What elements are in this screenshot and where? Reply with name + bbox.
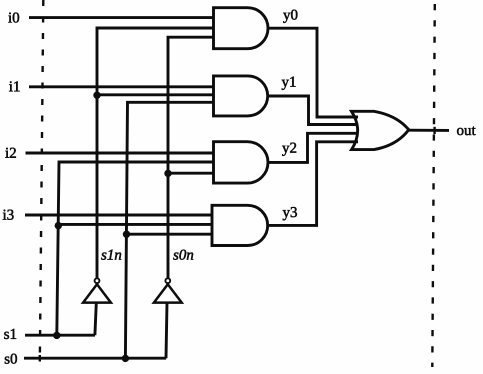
wire y2 output to OR input 3: [268, 133, 358, 162]
wire s0n branch to AND3 input 3: [168, 172, 214, 175]
or-gate U7 (out): [352, 111, 409, 149]
boundary dashed line left: [40, 0, 43, 353]
label y0: [283, 10, 297, 23]
and-gate U3 (y2): [214, 142, 268, 183]
inverter U5 (s1n): [83, 278, 111, 335]
boundary dashed line right: [432, 4, 435, 367]
wire y1 output to OR input 2: [268, 96, 358, 125]
label i1: [9, 81, 19, 91]
label s1: [4, 329, 16, 339]
junction s0 / AND4 branch: [123, 231, 130, 238]
wire y0 output to OR input 1: [268, 28, 358, 117]
label y1: [282, 77, 296, 90]
wire s0 branch to AND4 input 3: [127, 233, 213, 236]
wire s0n column (inverter output up to AND1 input 3): [168, 37, 214, 278]
wire s1 column (s1 up to AND3 input 2): [57, 162, 214, 335]
wire s1: [25, 334, 95, 337]
label out: [457, 127, 476, 136]
wire s0 column (s0 up to AND2 input 3): [125, 102, 213, 358]
wire i2: [26, 152, 214, 155]
label y2: [282, 143, 296, 156]
wire i0: [29, 16, 214, 19]
wire out: [409, 129, 449, 132]
wire s1n branch to AND2 input 2: [97, 93, 214, 96]
wire s1n column (inverter output up to AND1 input 2): [97, 28, 214, 278]
label y3: [283, 207, 297, 220]
inverter U6 (s0n): [154, 278, 182, 358]
label s0: [5, 354, 17, 364]
label i2: [5, 148, 16, 158]
junction s0 column / s0 wire: [122, 355, 129, 362]
wire y3 output to OR input 4: [268, 142, 358, 226]
and-gate U2 (y1): [214, 76, 268, 116]
junction s1n / AND2 branch: [93, 92, 100, 99]
wire s0: [24, 357, 166, 360]
and-gate U4 (y3): [212, 205, 268, 245]
wire s1 branch to AND4 input 2: [58, 223, 212, 226]
junction s1 / AND4 branch: [55, 222, 62, 229]
label s1n: [101, 250, 121, 260]
label i0: [8, 13, 19, 23]
junction s1 column / s1 wire: [53, 332, 60, 339]
label i3: [3, 210, 14, 220]
wire i3: [25, 214, 212, 217]
junction s0n / AND3 branch: [164, 170, 171, 177]
dash tick on out wire: [433, 127, 435, 134]
dash tick on s0 wire: [39, 355, 41, 362]
and-gate U1 (y0): [214, 8, 268, 49]
wire i1: [29, 85, 214, 88]
label s0n: [173, 250, 193, 260]
